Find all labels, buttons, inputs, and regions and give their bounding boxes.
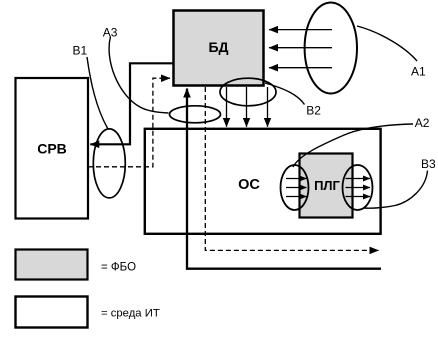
svg-text:= ФБО: = ФБО: [101, 262, 136, 274]
svg-text:БД: БД: [208, 39, 228, 55]
svg-text:B3: B3: [421, 157, 436, 171]
svg-text:B1: B1: [73, 44, 88, 58]
svg-text:= среда ИТ: = среда ИТ: [101, 307, 160, 319]
svg-text:A2: A2: [415, 116, 430, 130]
svg-text:ПЛГ: ПЛГ: [314, 178, 340, 193]
svg-text:СРВ: СРВ: [37, 140, 67, 156]
svg-text:B2: B2: [306, 103, 321, 117]
svg-text:A3: A3: [103, 25, 118, 39]
svg-text:A1: A1: [411, 64, 426, 78]
svg-text:ОС: ОС: [238, 177, 260, 193]
